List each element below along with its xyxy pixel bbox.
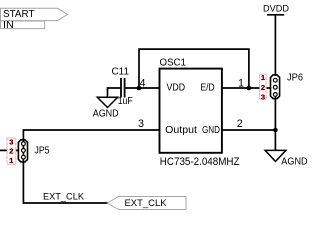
- node START flag: [1, 8, 68, 20]
- svg-text:START: START: [3, 9, 35, 20]
- junction dot at GND/AGND wire: [273, 128, 278, 133]
- junction dot at C11/VDD: [137, 86, 142, 91]
- svg-text:1: 1: [9, 156, 13, 165]
- wire JP6 pin3 to AGND: [274, 97, 276, 151]
- svg-text:HC735-2.048MHZ: HC735-2.048MHZ: [160, 156, 240, 168]
- svg-text:2: 2: [237, 118, 243, 130]
- wire JP5 bottom to EXT_CLK flag: [23, 161, 108, 203]
- wire C11 right plate to OSC1 VDD pin4: [125, 87, 159, 89]
- pin numbers JP6 (red): [260, 73, 267, 101]
- svg-text:3: 3: [9, 137, 13, 146]
- pin numbers JP5 (red): [7, 137, 16, 165]
- svg-text:JP5: JP5: [35, 146, 50, 157]
- junction dot at E/D wire: [247, 86, 252, 91]
- node EXT_CLK flag: [107, 197, 186, 210]
- wire VDD loop (junction to E/D junction): [139, 49, 249, 88]
- wire C11 left plate to AGND: [108, 88, 121, 98]
- connector JP5: [18, 140, 27, 162]
- node IN flag: [1, 20, 45, 31]
- svg-text:2: 2: [9, 147, 13, 156]
- capacitor C11: [121, 78, 125, 98]
- svg-text:IN: IN: [3, 20, 14, 31]
- op-amp OSC1 box: [160, 58, 222, 153]
- svg-text:1uF: 1uF: [118, 96, 133, 107]
- wire OSC1 E/D pin1 to JP6 pin2: [222, 87, 271, 89]
- svg-text:C11: C11: [112, 67, 130, 78]
- svg-text:AGND: AGND: [281, 157, 307, 168]
- svg-text:VDD: VDD: [167, 83, 186, 94]
- svg-text:AGND: AGND: [93, 108, 119, 119]
- connector JP6: [271, 75, 280, 99]
- svg-text:1: 1: [261, 73, 265, 82]
- wire OSC1 GND pin2 to AGND junction: [222, 129, 275, 131]
- svg-text:EXT_CLK: EXT_CLK: [125, 198, 168, 209]
- ground AGND left: [93, 97, 119, 119]
- svg-text:GND: GND: [202, 125, 220, 136]
- svg-text:3: 3: [138, 118, 144, 130]
- svg-text:E/D: E/D: [201, 83, 215, 94]
- wire JP5 pin2 stub to left edge: [0, 149, 19, 151]
- wire DVDD to JP6 pin1: [274, 15, 276, 76]
- svg-text:Output: Output: [165, 125, 197, 136]
- power DVDD: [263, 4, 289, 15]
- svg-text:JP6: JP6: [287, 73, 303, 84]
- wire JP5 through body: [22, 140, 24, 162]
- svg-text:DVDD: DVDD: [263, 4, 289, 15]
- svg-text:OSC1: OSC1: [160, 58, 187, 69]
- svg-text:EXT_CLK: EXT_CLK: [43, 192, 85, 203]
- svg-text:3: 3: [261, 92, 265, 101]
- wire OSC1 Output pin3 to JP5: [23, 130, 159, 141]
- svg-text:2: 2: [261, 83, 265, 92]
- ground AGND right: [265, 150, 307, 167]
